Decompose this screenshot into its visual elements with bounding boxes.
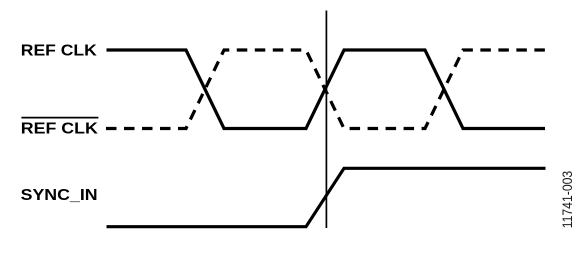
svg-text:11741-003: 11741-003	[559, 171, 575, 229]
svg-text:REF CLK: REF CLK	[21, 120, 98, 137]
svg-text:REF CLK: REF CLK	[21, 43, 97, 60]
svg-text:SYNC_IN: SYNC_IN	[21, 187, 98, 204]
